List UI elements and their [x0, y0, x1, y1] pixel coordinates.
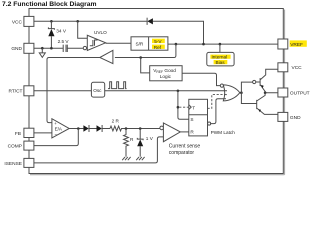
pin GND left [24, 43, 34, 53]
wire output node [241, 93, 278, 104]
node toggle branch [177, 106, 180, 109]
svg-text:GND: GND [11, 46, 22, 52]
zener 1V clamp [139, 129, 141, 157]
block VREF Good Logic [150, 66, 182, 81]
svg-text:comparator: comparator [169, 150, 195, 156]
diode D3 [97, 125, 102, 131]
wire gate out [240, 92, 242, 94]
block Internal Bias [219, 44, 221, 52]
node divider R [125, 127, 128, 130]
svg-text:Bias: Bias [216, 60, 226, 65]
block PWM latch [189, 99, 208, 136]
svg-text:ISENSE: ISENSE [4, 161, 22, 167]
diode D1 (rail diode, points left) [146, 18, 148, 25]
wire latch Q to gate [211, 99, 225, 124]
wire UVLO out [106, 42, 131, 44]
node GND-zener [50, 47, 53, 50]
ground (hatch) [136, 157, 144, 160]
buffer (left-pointing) [100, 50, 113, 63]
svg-text:VCC: VCC [12, 19, 23, 25]
op-amp UVLO comparator [78, 21, 88, 38]
svg-text:2 R: 2 R [112, 119, 120, 124]
clock waveform [108, 82, 127, 89]
svg-text:GND: GND [290, 115, 301, 121]
svg-text:E/A: E/A [55, 127, 62, 132]
svg-text:OUTPUT: OUTPUT [290, 91, 310, 97]
node internal bias [219, 43, 222, 46]
svg-text:7.2 Functional Block Diagram: 7.2 Functional Block Diagram [2, 1, 97, 8]
pin OUTPUT [278, 88, 288, 97]
node osc-latch branch [177, 90, 180, 93]
hysteresis glyph [90, 40, 98, 46]
svg-text:Logic: Logic [160, 74, 172, 79]
node output [264, 91, 267, 94]
svg-text:FB: FB [15, 131, 21, 137]
wire osc to S input [178, 91, 189, 119]
ground (open triangle) [39, 48, 45, 57]
resistor 2R [110, 126, 160, 131]
transistor Q1 (upper) [241, 82, 254, 93]
pin ISENSE [24, 158, 34, 167]
svg-text:VCC: VCC [292, 65, 303, 71]
node GND-ground [41, 47, 44, 50]
svg-text:5-V: 5-V [154, 39, 162, 44]
svg-text:1 V: 1 V [146, 136, 154, 141]
wire COMP feedback [34, 129, 78, 146]
comparator inverting input bubble [160, 126, 164, 130]
wire VREF rail [168, 43, 278, 45]
wire VCC top rail [34, 21, 204, 43]
pin FB [24, 128, 34, 137]
resistor R to ground [124, 129, 129, 157]
svg-text:RT/CT: RT/CT [8, 89, 22, 95]
wire dashed toggle out to gate [208, 95, 226, 109]
svg-text:Current sense: Current sense [169, 144, 201, 150]
svg-text:VREF: VREF [290, 42, 303, 48]
gate top inverted input bubble [220, 84, 223, 87]
node on VCC rail at UVLO branch [76, 20, 79, 23]
zener 34V [48, 21, 54, 48]
svg-text:Ref: Ref [154, 45, 162, 50]
outer border [29, 9, 283, 174]
node divider zener [139, 127, 142, 130]
svg-text:COMP: COMP [8, 144, 22, 150]
svg-text:PWM Latch: PWM Latch [211, 130, 236, 135]
svg-text:Internal: Internal [212, 54, 228, 59]
svg-text:S: S [190, 117, 193, 122]
pin RT/CT [24, 86, 34, 96]
op-amp E/A error amplifier [34, 132, 52, 134]
ground (hatch) [122, 157, 130, 160]
wire E/A out [69, 128, 83, 130]
block Osc [34, 90, 224, 92]
svg-text:T: T [192, 105, 195, 110]
node on VCC rail at zener [50, 20, 53, 23]
pin VREF [278, 39, 288, 49]
block S/R + 5-V Ref [131, 37, 168, 50]
svg-text:UVLO: UVLO [94, 30, 107, 35]
node rail diode [202, 43, 205, 46]
wire GND rail [34, 47, 83, 49]
svg-text:−: − [55, 133, 58, 139]
wire ref-good to gate [182, 73, 220, 85]
diode D2 (E/A out) [83, 125, 88, 131]
capacitor (reference bypass) [63, 45, 67, 52]
svg-text:Osc: Osc [93, 88, 102, 93]
latch output bubble [208, 122, 211, 125]
wire dashed to T input [179, 106, 189, 108]
svg-text:S/R: S/R [136, 42, 144, 47]
OR gate [223, 85, 240, 101]
inverter bubble Q1 base [253, 80, 256, 83]
wire ISENSE to comparator [34, 137, 164, 163]
node E/A output [77, 127, 80, 130]
node ref-2.5V branch [175, 43, 178, 46]
svg-text:2.5 V: 2.5 V [58, 39, 70, 44]
node ref-good branch [139, 56, 142, 59]
wire 2.5V reference line [47, 44, 176, 123]
pin VCC right [278, 63, 288, 72]
svg-text:34 V: 34 V [56, 29, 67, 34]
transistor Q2 (lower) [257, 93, 278, 115]
pin COMP [24, 141, 34, 150]
pin VCC left [24, 16, 34, 26]
pin GND right [278, 112, 288, 121]
node gate output [240, 91, 243, 94]
